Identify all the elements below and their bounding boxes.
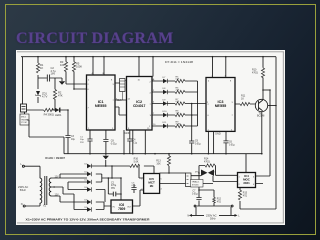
svg-text:D8: D8 [163,88,167,90]
svg-text:C9: C9 [195,141,199,143]
svg-text:GND: GND [125,131,131,135]
svg-text:C6: C6 [229,142,233,144]
svg-text:GND: GND [215,132,221,136]
svg-text:50Hz: 50Hz [210,217,216,220]
svg-text:LED1: LED1 [55,113,62,117]
svg-text:01K: 01K [176,101,180,103]
svg-text:0.01µ: 0.01µ [195,143,201,145]
svg-text:X1: X1 [43,205,47,208]
svg-text:THUMP: THUMP [21,119,29,121]
svg-text:4: 4 [150,93,152,95]
svg-text:2: 2 [239,184,241,186]
svg-text:0.01µ: 0.01µ [111,143,117,145]
svg-text:3: 3 [232,102,234,104]
svg-text:1K: 1K [40,66,43,70]
svg-text:16V: 16V [51,72,56,76]
svg-text:7: 7 [232,115,234,117]
svg-text:BT136: BT136 [192,184,199,186]
svg-text:12V: 12V [55,195,60,197]
svg-text:0.1µ: 0.1µ [133,142,138,144]
svg-text:10µ: 10µ [80,139,84,141]
svg-text:D10: D10 [163,111,168,113]
svg-text:12K: 12K [176,113,180,115]
svg-text:2: 2 [88,84,90,86]
svg-text:NE555: NE555 [215,104,227,108]
svg-text:6: 6 [208,115,210,117]
svg-text:47K: 47K [58,93,63,97]
svg-text:TRIAC1: TRIAC1 [192,181,201,184]
svg-text:14: 14 [128,99,131,101]
svg-text:D7: D7 [163,77,167,79]
svg-text:R12: R12 [217,199,222,201]
svg-text:7: 7 [150,104,152,106]
svg-text:CLK: CLK [117,100,122,102]
svg-text:4: 4 [88,80,90,82]
svg-text:1: 1 [141,179,143,181]
svg-text:8: 8 [230,81,232,83]
svg-text:0.1µ: 0.1µ [132,185,137,187]
svg-text:MIC1: MIC1 [21,117,27,119]
svg-text:1TOM: 1TOM [21,122,27,124]
svg-text:D7-D11 = 1N4148: D7-D11 = 1N4148 [165,60,194,64]
svg-text:L: L [238,215,240,218]
svg-text:470Ω: 470Ω [252,71,258,74]
svg-text:C7: C7 [193,191,197,193]
svg-text:D11: D11 [163,122,168,124]
svg-text:3021: 3021 [243,181,250,185]
svg-text:6: 6 [88,89,90,91]
svg-text:C2: C2 [111,183,115,185]
svg-text:2: 2 [150,82,152,84]
svg-text:50Hz: 50Hz [20,188,27,192]
svg-text:7809: 7809 [118,207,125,211]
svg-text:1K: 1K [241,97,244,100]
svg-text:N: N [21,202,23,206]
svg-text:C1: C1 [80,137,84,139]
svg-text:1: 1 [239,177,241,179]
svg-text:4: 4 [253,184,255,186]
svg-text:C5: C5 [132,182,136,184]
svg-text:NE555: NE555 [95,104,107,108]
svg-text:35V: 35V [111,188,116,190]
svg-text:4: 4 [161,189,163,191]
svg-text:10µ: 10µ [71,139,76,141]
svg-text:10K: 10K [156,162,161,165]
svg-text:X1=230V AC PRIMARY TO 12V-0-12: X1=230V AC PRIMARY TO 12V-0-12V, 250mA S… [26,217,151,221]
svg-text:BC548: BC548 [257,115,265,118]
svg-text:47Ω: 47Ω [243,195,248,197]
svg-text:470µ: 470µ [111,185,117,187]
svg-text:C4: C4 [133,140,137,142]
svg-text:4: 4 [208,81,210,83]
svg-text:D1-D9 = 1N4007: D1-D9 = 1N4007 [45,156,65,160]
svg-text:8: 8 [111,80,113,82]
svg-text:R15: R15 [243,193,248,195]
svg-text:100K: 100K [76,65,82,69]
svg-text:2: 2 [208,104,210,106]
svg-text:5.6K: 5.6K [134,160,139,163]
svg-text:C8: C8 [111,141,115,143]
svg-text:1: 1 [149,126,151,128]
svg-text:5: 5 [161,179,163,181]
svg-text:470Ω: 470Ω [204,160,210,163]
svg-text:27K: 27K [176,90,180,92]
svg-text:D9: D9 [163,100,167,102]
svg-text:10K: 10K [60,63,65,67]
svg-text:N: N [188,215,190,218]
svg-text:12V: 12V [55,177,60,179]
svg-text:390Ω: 390Ω [48,113,54,117]
svg-text:CD4017: CD4017 [133,104,146,108]
svg-text:C3: C3 [71,136,75,138]
svg-text:OUT: OUT [127,207,132,209]
svg-text:4.7V: 4.7V [42,94,48,98]
svg-text:IN: IN [113,207,116,209]
svg-text:01K: 01K [176,79,180,81]
svg-text:47Ω: 47Ω [217,201,222,203]
svg-text:6: 6 [253,177,255,179]
svg-text:25V: 25V [80,142,84,144]
svg-text:3: 3 [113,84,115,86]
svg-text:16: 16 [138,80,141,82]
svg-text:0.01µ: 0.01µ [229,144,235,146]
svg-text:2E: 2E [150,184,154,188]
svg-text:3.3M: 3.3M [176,124,181,126]
svg-text:7: 7 [113,100,115,102]
svg-text:7: 7 [88,108,90,110]
svg-text:0.01µ: 0.01µ [192,193,198,195]
